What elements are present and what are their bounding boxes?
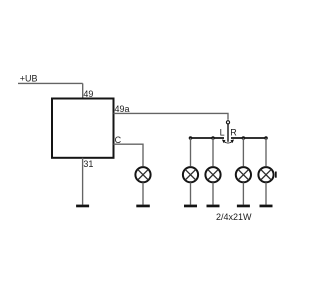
wire control lamp to ground [142,182,144,204]
wire +UB horizontal feed [18,82,83,84]
junction dot lamp E1 [189,136,193,140]
ground at lamp E4 [260,205,273,208]
control lamp C [135,167,150,182]
svg-text:2/4x21W: 2/4x21W [216,212,252,222]
wire pin 31 to ground [82,158,84,205]
wire lamp E4 to ground [265,182,267,204]
ground at pin 31 [76,205,89,208]
switch S1 pivot [226,121,229,124]
wire lamp E3 to ground [242,182,244,204]
ground at lamp E2 [207,205,220,208]
wire bus to lamp E4 [265,138,267,166]
svg-text:C: C [115,135,122,145]
net bus L (left indicators) [190,137,224,139]
svg-text:49a: 49a [115,104,130,114]
ground at control lamp [136,205,150,208]
wire lamp E1 to ground [190,182,192,204]
flasher relay box U1 [52,99,114,158]
terminal tick at lamp E4 [275,172,277,178]
junction dot lamp E2 [211,136,215,140]
svg-text:L: L [220,128,225,138]
indicator lamp E3 [236,167,251,182]
net bus R (right indicators) [231,137,266,139]
svg-text:49: 49 [83,89,93,99]
indicator lamp E1 [183,167,198,182]
junction dot lamp E3 [242,136,246,140]
switch swing arrow [222,140,234,144]
wire lamp E2 to ground [212,182,214,204]
wire pin 49a to switch pivot [114,113,229,119]
switch S1 lever [227,124,229,142]
wire bus to lamp E2 [212,138,214,166]
wire bus to lamp E1 [190,138,192,166]
wire bus to lamp E3 [242,138,244,166]
svg-text:31: 31 [83,159,93,169]
wire pin C to control lamp [114,144,144,166]
svg-text:+UB: +UB [20,74,38,84]
ground at lamp E3 [237,205,250,208]
ground at lamp E1 [184,205,197,208]
indicator lamp E2 [205,167,220,182]
indicator lamp E4 [258,167,273,182]
junction dot lamp E4 [264,136,268,140]
wire +UB drop to pin 49 [82,83,84,98]
svg-text:R: R [230,128,237,138]
